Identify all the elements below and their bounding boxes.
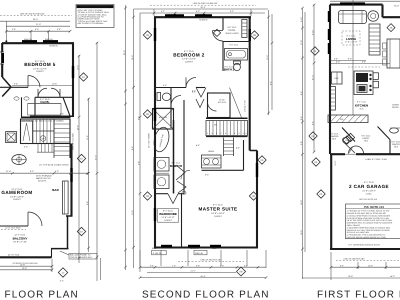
diamond tag mid L2 — [143, 110, 151, 118]
svg-text:6'-6": 6'-6" — [362, 61, 366, 64]
up label — [40, 136, 46, 142]
svg-text:11'-6" x 11'-0": 11'-6" x 11'-0" — [161, 216, 174, 219]
hall wall below bedroom2 — [155, 87, 186, 89]
svg-text:9'-2": 9'-2" — [137, 116, 140, 120]
svg-text:3'-6": 3'-6" — [163, 84, 167, 87]
left chain line — [133, 9, 135, 268]
powder diamond tag — [343, 136, 351, 144]
svg-text:8'-0" CLG.: 8'-0" CLG. — [229, 44, 239, 47]
shower — [153, 109, 174, 130]
svg-text:5'-8": 5'-8" — [196, 264, 200, 267]
diamond tag mid R2 — [258, 156, 266, 164]
dim ticks — [5, 30, 71, 33]
bottom dim 1 — [331, 266, 400, 268]
svg-text:8'-6": 8'-6" — [300, 91, 303, 95]
tub — [225, 49, 248, 61]
diamond tag mid L1 — [143, 31, 151, 39]
svg-text:(SCREEN TO FLR BELOW): (SCREEN TO FLR BELOW) — [12, 262, 37, 265]
left ext chain x97 — [96, 42, 98, 281]
svg-text:FLAT: FLAT — [394, 4, 400, 7]
svg-text:34'-0": 34'-0" — [33, 18, 38, 21]
svg-text:ENCLOSE AREAS UNDER WHERE ALL: ENCLOSE AREAS UNDER WHERE ALL STAIR — [347, 236, 387, 239]
svg-text:SCREEN: SCREEN — [49, 45, 58, 48]
svg-text:CARPET: CARPET — [36, 70, 45, 73]
window bar 1 — [165, 14, 184, 16]
pantry shelf line — [390, 127, 400, 129]
svg-text:P.B. NOTE #13: P.B. NOTE #13 — [364, 205, 384, 209]
diamond tag mid R3 — [249, 192, 257, 200]
garage left wall — [330, 154, 332, 249]
top wall window bar — [340, 2, 365, 4]
svg-text:LABEL 4" CONC. SLAB: LABEL 4" CONC. SLAB — [365, 158, 387, 161]
svg-text:SEE P.B. NOTE #13: SEE P.B. NOTE #13 — [359, 198, 378, 201]
svg-text:19'-2": 19'-2" — [300, 200, 303, 205]
svg-text:12'-6" x 12'-0": 12'-6" x 12'-0" — [33, 67, 47, 70]
svg-text:21'-0" x 19'-2": 21'-0" x 19'-2" — [362, 189, 376, 192]
svg-text:4'-4": 4'-4" — [244, 264, 248, 267]
diamond tag right plan 3 — [317, 190, 325, 198]
svg-text:8'-0": 8'-0" — [300, 116, 303, 120]
super pantry labels — [392, 103, 399, 108]
svg-text:M.SHWR: M.SHWR — [159, 116, 168, 119]
svg-text:4'-6": 4'-6" — [236, 147, 240, 150]
left chain line b — [139, 13, 141, 266]
svg-text:BEDROOM 5: BEDROOM 5 — [24, 62, 55, 67]
attic ladder box — [21, 121, 33, 144]
svg-text:15'-0" x 16'-0": 15'-0" x 16'-0" — [211, 212, 225, 215]
svg-text:9'-0" CLG.: 9'-0" CLG. — [329, 132, 339, 135]
svg-text:1/2" GYP. BD. ALL WALLS & CLG.: 1/2" GYP. BD. ALL WALLS & CLG. @ USABLE — [22, 120, 64, 123]
dim line top 1 — [0, 20, 70, 22]
gameroom dim line — [0, 172, 88, 174]
svg-text:11'-0": 11'-0" — [131, 210, 134, 215]
diamond tag entry side — [309, 132, 317, 140]
svg-text:5'-2": 5'-2" — [230, 10, 234, 13]
bottom dim ticks — [51, 265, 54, 271]
garage note box — [346, 204, 400, 239]
svg-text:5050 SH: 5050 SH — [195, 252, 203, 255]
svg-text:9'-0": 9'-0" — [205, 174, 209, 177]
svg-text:LINE OF 2ND FLR ABV: LINE OF 2ND FLR ABV — [343, 257, 365, 260]
linen cabinet — [242, 20, 247, 38]
svg-text:3'-0": 3'-0" — [24, 146, 28, 149]
svg-text:2'-10": 2'-10" — [300, 17, 303, 22]
bay corner walls — [2, 77, 11, 87]
svg-text:29'-0": 29'-0" — [123, 50, 126, 55]
gameroom dim ticks — [11, 172, 89, 175]
balcony bottom rail wall — [0, 256, 52, 258]
upper cabinets dashed — [348, 66, 380, 68]
svg-text:3'-6": 3'-6" — [150, 264, 154, 267]
powder diagonal walls — [342, 128, 355, 142]
door arc bath3 — [171, 96, 181, 106]
svg-text:21'-8": 21'-8" — [6, 170, 11, 173]
pantry wall — [389, 140, 391, 154]
svg-text:19'-8": 19'-8" — [22, 267, 27, 270]
diamond tag right plan 1 — [311, 47, 319, 55]
door swing ovals — [14, 97, 19, 100]
svg-text:SHELF & ROD: SHELF & ROD — [225, 32, 239, 35]
island stools — [373, 73, 378, 80]
svg-text:TILE: TILE — [364, 140, 369, 143]
note box header — [77, 5, 114, 8]
svg-text:3'-6": 3'-6" — [14, 83, 18, 86]
stair hall box — [21, 119, 71, 144]
shaft treads — [224, 141, 234, 155]
hall door swings — [196, 88, 206, 98]
dashed line of 2nd flr below — [0, 15, 72, 17]
svg-text:TILE: TILE — [359, 108, 364, 111]
bottom dim line 1 — [0, 265, 52, 267]
dim line top 3 — [6, 30, 70, 32]
left wall living w/ windows — [329, 5, 331, 122]
dim line top 2 — [6, 25, 70, 27]
right wall upper — [249, 17, 251, 151]
svg-text:26'-8": 26'-8" — [200, 6, 205, 9]
svg-text:BEDROOM 2: BEDROOM 2 — [173, 52, 204, 57]
svg-text:8'-2": 8'-2" — [269, 81, 272, 85]
hall wall above stairs — [21, 116, 71, 118]
landing wall — [206, 117, 248, 119]
svg-text:4'-0": 4'-0" — [336, 61, 340, 64]
stair side walls — [53, 119, 55, 158]
mbath door swings — [176, 165, 185, 180]
svg-text:21'-0": 21'-0" — [36, 23, 41, 26]
svg-text:9'-0" CLG.: 9'-0" CLG. — [361, 134, 371, 137]
svg-text:12'-0" CLG TRAY: 12'-0" CLG TRAY — [5, 227, 21, 230]
svg-text:GENERAL AT GARAGE NOTES: GENERAL AT GARAGE NOTES — [80, 6, 111, 9]
svg-text:ARE CLOSEST TO FIREWALL.: ARE CLOSEST TO FIREWALL. — [78, 22, 105, 25]
diamond tag dining — [387, 24, 395, 32]
svg-text:RD FLOOR PLAN: RD FLOOR PLAN — [0, 290, 79, 300]
svg-text:SECOND FLOOR PLAN: SECOND FLOOR PLAN — [142, 290, 270, 300]
svg-text:1/2" GYP BD @ USABLE SPACE: 1/2" GYP BD @ USABLE SPACE — [39, 163, 69, 166]
chain ticks mid left — [132, 16, 141, 249]
svg-text:BALLOON FRAME TO: BALLOON FRAME TO — [70, 254, 91, 257]
svg-text:3'-6": 3'-6" — [57, 28, 61, 31]
svg-text:SCREEN: SCREEN — [199, 19, 208, 22]
stair tiny dims — [24, 113, 64, 149]
svg-text:LIVING: LIVING — [346, 37, 357, 41]
center dim line through living/kitchen — [352, 0, 354, 115]
svg-text:PNTRY: PNTRY — [392, 106, 399, 109]
hall dims small — [192, 91, 214, 153]
svg-text:37'-0": 37'-0" — [94, 155, 97, 160]
note box (left sheet) — [76, 5, 114, 28]
svg-text:4'-6": 4'-6" — [196, 144, 200, 147]
left wall window bar — [154, 28, 156, 41]
svg-text:PANTRY: PANTRY — [392, 143, 400, 146]
svg-text:5'-2": 5'-2" — [161, 10, 165, 13]
svg-text:GAMEROOM: GAMEROOM — [1, 190, 32, 195]
garage note text — [347, 210, 393, 239]
bottom dim 2 — [302, 277, 400, 279]
lower winder treads — [38, 144, 52, 153]
svg-text:LINE OF 2ND FLR BELOW: LINE OF 2ND FLR BELOW — [193, 2, 218, 5]
chain b — [313, 4, 315, 152]
bottom ext drop — [51, 259, 53, 272]
svg-text:10'-6": 10'-6" — [52, 83, 57, 86]
svg-text:8'-2": 8'-2" — [131, 146, 134, 150]
svg-text:LINEN: LINEN — [208, 150, 214, 153]
bottom dim line 3 — [140, 277, 266, 279]
stair run border — [206, 121, 248, 136]
diamond tag powder — [346, 133, 354, 141]
svg-text:LINE OF 3RD FLR ABV: LINE OF 3RD FLR ABV — [200, 258, 222, 261]
svg-text:5'-0": 5'-0" — [35, 28, 39, 31]
top ext drops mid — [154, 9, 251, 16]
powder labels — [329, 132, 339, 140]
svg-text:9'-3": 9'-3" — [340, 264, 344, 267]
svg-text:13'-4": 13'-4" — [266, 55, 269, 60]
svg-text:TILE: TILE — [332, 138, 337, 141]
closet shelf — [28, 103, 61, 105]
bottom wall master — [154, 246, 258, 248]
left chain right plan — [301, 8, 303, 279]
dashed line 2nd flr below top — [150, 4, 256, 6]
chain ticks left plan — [78, 55, 90, 260]
note box text — [78, 9, 109, 25]
wardrobe right wall — [181, 194, 183, 247]
entry labels — [361, 134, 371, 142]
svg-text:42" HT. RAIL: 42" HT. RAIL — [8, 253, 20, 256]
bottom ext drops — [140, 250, 266, 272]
powder toilet — [341, 136, 349, 144]
window bar right wall — [70, 168, 72, 182]
svg-text:6'-10": 6'-10" — [311, 30, 314, 35]
svg-text:2 3 4 5 6 7 8 9 10: 2 3 4 5 6 7 8 9 10 — [207, 132, 248, 135]
svg-text:CARPET: CARPET — [185, 60, 194, 63]
wardrobe top wall — [155, 193, 168, 195]
svg-text:6'-0": 6'-0" — [55, 170, 59, 173]
bottom dim ticks — [330, 266, 388, 269]
diamond tag right a — [77, 154, 85, 162]
diamond tag bottom mid — [237, 267, 246, 276]
window drop arrows — [30, 40, 32, 42]
door arc hall — [186, 78, 196, 88]
svg-text:ACCESS: ACCESS — [218, 101, 227, 104]
chain ticks mid right — [267, 16, 273, 115]
svg-text:10'-6": 10'-6" — [368, 264, 373, 267]
svg-text:12'-0" x 14'-0": 12'-0" x 14'-0" — [182, 58, 196, 61]
window bars left wall — [328, 11, 330, 22]
tread tick text row — [22, 120, 64, 123]
bath3 window bar — [154, 108, 156, 121]
stair treads down — [54, 124, 70, 156]
bath3 partition — [170, 88, 172, 129]
svg-text:LINE OF 2ND FLR BELOW: LINE OF 2ND FLR BELOW — [20, 12, 45, 15]
svg-text:KITCHEN: KITCHEN — [355, 104, 368, 108]
bath2 window bar — [248, 29, 250, 41]
wc box — [154, 158, 169, 172]
diamond tag bottom — [58, 268, 67, 277]
svg-text:17R @ 7-3/4": 17R @ 7-3/4" — [244, 100, 247, 112]
stair diagonal — [230, 88, 242, 118]
window bars bottom — [161, 245, 172, 247]
bar counter — [63, 181, 69, 214]
svg-text:11'-2": 11'-2" — [86, 135, 89, 140]
svg-text:ENTRY: ENTRY — [363, 137, 370, 140]
wardrobe border — [158, 209, 179, 223]
bottom dim line 2 — [0, 269, 52, 271]
svg-text:10'-0": 10'-0" — [300, 230, 303, 235]
TITLES GROUP — [0, 290, 400, 300]
svg-text:4'-6": 4'-6" — [192, 91, 196, 94]
powder room walls — [329, 122, 331, 154]
left wall — [1, 43, 3, 52]
svg-text:CARPET: CARPET — [164, 219, 173, 222]
closet left wall — [21, 97, 23, 117]
balcony right wall — [67, 216, 69, 249]
svg-text:17'-4" x 15'-8": 17'-4" x 15'-8" — [345, 41, 358, 44]
sectional — [369, 24, 380, 55]
wardrobe window bar — [154, 208, 156, 221]
top wall bedroom2 — [154, 16, 251, 18]
rotated dims left plan — [76, 125, 89, 205]
svg-text:8'-0" OVERHEAD GARAGE DOOR: 8'-0" OVERHEAD GARAGE DOOR — [348, 243, 380, 246]
svg-text:UP: UP — [41, 138, 45, 141]
wardrobe door swing — [168, 194, 178, 204]
right-of-left chain a — [78, 55, 80, 263]
bath2 door arc — [213, 31, 224, 42]
pantry sink oval — [390, 128, 399, 133]
svg-text:15'-8" x 20'-0": 15'-8" x 20'-0" — [10, 195, 24, 198]
wall step top — [383, 16, 400, 18]
balcony frame note — [70, 254, 92, 260]
svg-text:CONC.: CONC. — [366, 192, 373, 195]
living dashed box — [342, 31, 360, 45]
svg-text:12'-0": 12'-0" — [76, 65, 79, 70]
window bar 2 — [195, 14, 212, 16]
svg-text:2'-8": 2'-8" — [334, 58, 338, 61]
right-of-left chain b — [88, 98, 90, 252]
right wall window bar — [72, 66, 74, 78]
right wall gameroom — [70, 144, 72, 217]
svg-text:21'-0": 21'-0" — [190, 270, 195, 273]
svg-text:9'-8": 9'-8" — [86, 201, 89, 205]
svg-text:19'-6": 19'-6" — [348, 275, 353, 278]
dim line living bottom — [330, 60, 366, 62]
shaft side dims — [205, 147, 240, 177]
master window bar — [256, 163, 258, 177]
svg-text:9'-4": 9'-4" — [311, 121, 314, 125]
LEFT PLAN GROUP — [0, 5, 114, 283]
svg-text:9'-0": 9'-0" — [348, 58, 352, 61]
svg-text:21'-4": 21'-4" — [311, 75, 314, 80]
clos labels — [225, 26, 239, 35]
bath3 lower wall — [155, 107, 171, 109]
svg-text:15'-8" x 7'-10": 15'-8" x 7'-10" — [13, 241, 27, 244]
bottom ext drops — [331, 252, 386, 280]
closet diagonal — [63, 97, 70, 116]
stair mid rail — [206, 136, 248, 138]
toilet bath3 — [157, 93, 161, 101]
svg-text:6'-0": 6'-0" — [196, 10, 200, 13]
chain ticks — [301, 4, 315, 251]
svg-text:WARDROBE: WARDROBE — [159, 212, 177, 216]
svg-text:26'-8": 26'-8" — [200, 275, 205, 278]
dim line top 1 — [134, 8, 269, 10]
svg-text:15'-8": 15'-8" — [20, 263, 25, 266]
window labels bottom — [152, 247, 217, 250]
svg-text:BALCONY: BALCONY — [13, 236, 28, 240]
right jog — [250, 150, 257, 152]
MIDDLE PLAN GROUP — [123, 2, 273, 279]
mbath wall below — [202, 169, 244, 171]
dashed line 3rd flr abv — [178, 261, 244, 263]
extra rotated dims mid left — [131, 146, 140, 165]
right wall upper — [72, 43, 74, 116]
svg-text:M. BATH: M. BATH — [170, 164, 182, 168]
gameroom wall jog — [66, 215, 73, 217]
svg-text:ACCESS: ACCESS — [38, 179, 47, 182]
utility wall — [173, 120, 175, 194]
svg-text:TILE: TILE — [394, 146, 399, 149]
svg-text:2 CAR GARAGE: 2 CAR GARAGE — [349, 184, 389, 189]
svg-text:CLOS.: CLOS. — [228, 29, 236, 32]
mbath vanity block — [202, 155, 222, 168]
right wall lower — [256, 151, 258, 248]
bath2 partition — [222, 17, 224, 30]
kitchen dim line — [331, 63, 390, 65]
top wall bedroom5 — [2, 42, 74, 44]
top dim line — [330, 0, 400, 2]
svg-text:P-103 PR: P-103 PR — [153, 252, 162, 255]
balcony door arc — [28, 212, 42, 226]
RIGHT PLAN GROUP — [300, 0, 400, 280]
right chain of middle — [268, 10, 270, 115]
svg-text:42" x 60" SHWR: 42" x 60" SHWR — [148, 133, 151, 148]
svg-text:MASTER SUITE: MASTER SUITE — [199, 206, 238, 211]
dim ticks top — [153, 12, 253, 15]
svg-text:14'-2": 14'-2" — [390, 275, 395, 278]
svg-text:14'-0": 14'-0" — [131, 55, 134, 60]
winder mid rail — [33, 130, 54, 132]
extra rotated dims right — [300, 17, 315, 235]
svg-text:9'-0" CLG.: 9'-0" CLG. — [391, 140, 400, 143]
rotated dims middle left — [131, 55, 140, 215]
dashed 2nd flr abv — [336, 260, 400, 262]
dim line mid — [12, 85, 74, 87]
garage top wall — [330, 153, 345, 155]
stair closet door arc — [208, 102, 217, 111]
svg-text:BAR: BAR — [52, 188, 59, 192]
kitchen island — [354, 71, 373, 95]
entry door arcs — [349, 146, 357, 154]
svg-text:DW: DW — [340, 118, 343, 121]
diamond tag bath2 door — [213, 29, 220, 36]
center divider wall — [183, 100, 185, 194]
garage bottom wall — [330, 248, 400, 250]
pantry diagonal wall — [378, 127, 391, 140]
fridge cabinet — [332, 72, 343, 84]
top wall living — [330, 4, 383, 6]
svg-text:5'-0": 5'-0" — [220, 264, 224, 267]
svg-text:3'-6": 3'-6" — [12, 28, 16, 31]
chain x97 ticks — [96, 42, 99, 259]
counter bar hatched — [328, 115, 368, 123]
stair closet walls — [208, 93, 231, 118]
interior wall hall — [0, 86, 28, 88]
wall step right — [381, 5, 383, 18]
dining table — [387, 39, 400, 68]
shower box — [154, 175, 169, 189]
stair treads vertical — [210, 121, 245, 135]
ceiling fan — [12, 155, 26, 165]
toilet bath2 — [234, 61, 241, 64]
left window — [0, 52, 4, 64]
diamond tag right plan 2 — [312, 158, 320, 166]
